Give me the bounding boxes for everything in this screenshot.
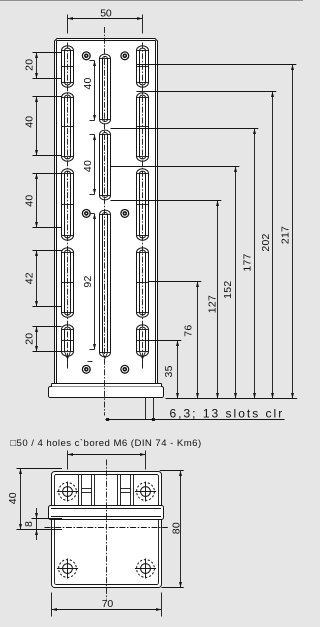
center slot 2 outline	[100, 130, 111, 200]
left column slot 4 outline	[62, 248, 74, 317]
dimension 50 bottom view	[67, 451, 69, 470]
dimension 152 right	[111, 166, 240, 168]
dimension 20 left chain	[33, 52, 62, 54]
left column centerline	[67, 43, 69, 369]
right column slot 1 inner slot	[140, 48, 146, 85]
dimension 217 right	[137, 64, 297, 66]
front view holes	[82, 52, 90, 60]
dimension 177 right	[111, 128, 259, 130]
dimension 8 bottom view	[32, 518, 63, 520]
svg-text:40: 40	[82, 77, 94, 89]
svg-text:92: 92	[82, 275, 94, 287]
svg-text:177: 177	[242, 253, 254, 271]
counterbored holes bottom view	[57, 491, 78, 493]
right column slot 3 inner slot	[140, 171, 146, 238]
dimension 40 bottom view	[17, 468, 63, 470]
dimension 40 inner	[94, 135, 96, 195]
svg-text:40: 40	[23, 195, 35, 207]
dimension 50 top	[67, 15, 69, 34]
dimension 40 left chain	[33, 173, 62, 175]
svg-text:50: 50	[100, 8, 112, 20]
svg-text:80: 80	[171, 522, 183, 534]
dimension 80 bottom view	[160, 470, 184, 472]
bridge left	[82, 488, 92, 490]
right column slot 5 outline	[137, 325, 149, 356]
svg-text:□50 / 4 holes c`bored M6 (DIN: □50 / 4 holes c`bored M6 (DIN 74 - Km6)	[10, 438, 201, 449]
left column slot 5 inner slot with taper lead-in	[65, 327, 71, 351]
dimension 42 left chain	[33, 250, 62, 252]
right column slot 3 outline	[137, 169, 149, 240]
dimension 35 right	[149, 340, 182, 342]
center slot 2 inner slot	[103, 133, 108, 198]
left column slot 4 inner slot	[65, 250, 71, 315]
center column centerline	[104, 27, 106, 416]
right column slot 5 inner slot with taper lead-in	[140, 327, 146, 351]
center slot 3 inner slot with taper lead-in	[103, 213, 108, 353]
channel section walls	[78, 475, 80, 506]
dimension 92 inner	[94, 214, 96, 350]
left column slot 3 inner slot	[65, 171, 71, 238]
left column slot 1 inner slot	[65, 48, 71, 85]
svg-text:20: 20	[23, 333, 35, 345]
dimension 20 left chain	[33, 326, 62, 328]
baseline for right dimensions	[166, 398, 298, 400]
dimension 40 inner	[94, 61, 96, 121]
base flange front view	[49, 387, 164, 398]
center slot 1 inner slot	[103, 57, 108, 122]
svg-text:8: 8	[23, 521, 35, 527]
dimension 70 bottom view	[51, 593, 53, 617]
svg-text:76: 76	[183, 325, 195, 337]
svg-text:127: 127	[207, 295, 219, 313]
left column slot 2 outline	[62, 93, 74, 161]
svg-text:40: 40	[23, 116, 35, 128]
svg-text:42: 42	[23, 272, 35, 284]
center slot 1 outline	[100, 54, 111, 124]
center slot 3 outline	[100, 210, 111, 357]
front view plate outline	[55, 39, 158, 384]
right column slot 4 outline	[137, 248, 149, 317]
svg-text:35: 35	[163, 365, 175, 377]
note 6,3 13 slots clr with leader	[145, 398, 147, 420]
right column slot 2 outline	[137, 93, 149, 161]
stray slot mark near bottom	[88, 361, 93, 363]
bridge right	[121, 488, 131, 490]
svg-text:6,3; 13 slots clr: 6,3; 13 slots clr	[170, 406, 285, 420]
bottom view centerlines	[106, 460, 108, 600]
svg-text:152: 152	[222, 281, 234, 299]
svg-text:202: 202	[260, 233, 272, 251]
right column slot 2 inner slot	[140, 95, 146, 159]
svg-text:40: 40	[7, 492, 19, 504]
left column slot 3 outline	[62, 169, 74, 240]
right column slot 4 inner slot	[140, 250, 146, 315]
bottom view plate outline	[52, 472, 162, 588]
plate inner edge lines	[56, 41, 58, 384]
page top edge line	[0, 0, 303, 2]
dimension 40 left chain	[33, 96, 62, 98]
dimension 202 right	[137, 91, 277, 93]
dimension 76 right	[149, 281, 202, 283]
cross band strip	[49, 506, 164, 520]
right column centerline	[142, 43, 144, 369]
svg-text:70: 70	[102, 598, 114, 610]
dimension 127 right	[111, 200, 222, 202]
left column slot 5 outline	[62, 325, 74, 356]
right column slot 1 outline	[137, 46, 149, 87]
svg-text:217: 217	[280, 226, 292, 244]
svg-text:40: 40	[82, 160, 94, 172]
svg-text:20: 20	[23, 59, 35, 71]
left column slot 2 inner slot	[65, 95, 71, 159]
left column slot 1 outline	[62, 46, 74, 87]
